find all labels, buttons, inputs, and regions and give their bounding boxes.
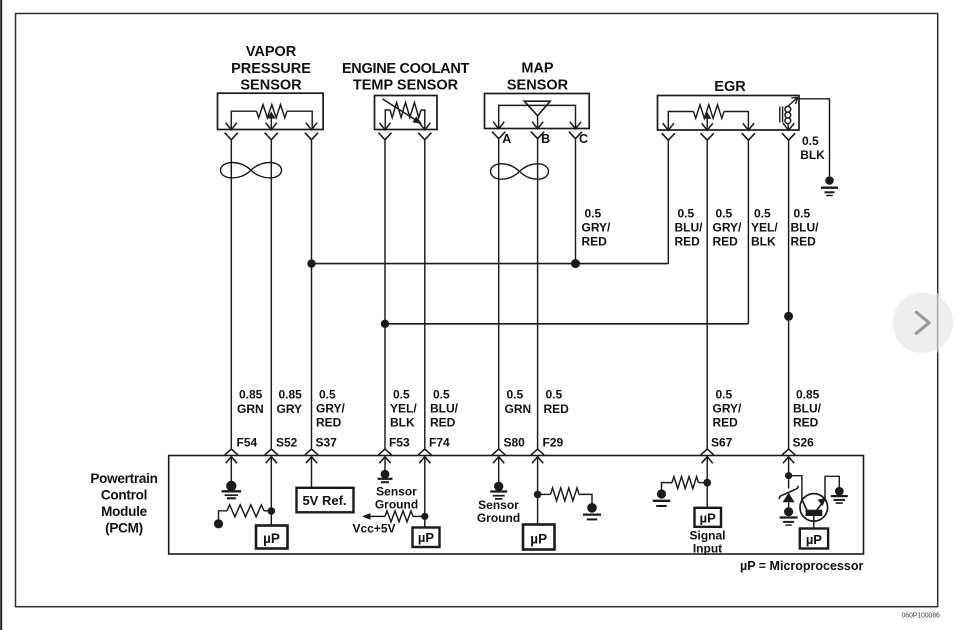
svg-text:0.5: 0.5 (546, 388, 563, 402)
label 0.5 GRY/RED (S37) (316, 388, 346, 430)
svg-text:RED: RED (793, 416, 819, 430)
svg-text:0.85: 0.85 (239, 388, 263, 402)
EGR pin 2 connector (701, 123, 714, 140)
svg-text:C: C (579, 132, 588, 146)
F53 sensor ground symbol (378, 470, 393, 482)
driver transistor Q1 (800, 494, 828, 522)
S37 internal wire (311, 457, 313, 488)
svg-text:060P100086: 060P100086 (902, 613, 940, 620)
svg-text:Sensor: Sensor (478, 498, 519, 512)
EGR pin 1 connector (662, 123, 675, 140)
svg-text:µP: µP (263, 531, 280, 546)
svg-text:0.5: 0.5 (802, 134, 819, 148)
S26 wire to transistor base (789, 476, 802, 500)
S67 internal wire (706, 457, 708, 508)
wire MAP C (0.5 GRY/RED) (575, 139, 577, 263)
svg-text:GRY/: GRY/ (713, 402, 743, 416)
label 0.5 BLU/RED (F74) (430, 388, 459, 430)
svg-text:µP = Microprocessor: µP = Microprocessor (740, 559, 863, 573)
EGR pin 4 connector (782, 123, 795, 140)
junction on F53 wire (381, 320, 389, 328)
svg-text:Ground: Ground (375, 498, 418, 512)
F74 internal wire (424, 457, 426, 528)
PCM pin connector S37 (305, 449, 318, 463)
svg-text:0.85: 0.85 (279, 388, 303, 402)
F54 internal ground (222, 481, 242, 499)
wire EGR solenoid to ground (797, 99, 829, 177)
label 0.5 BLU/RED (EGR1) (675, 207, 704, 249)
svg-text:0.5: 0.5 (585, 207, 602, 221)
svg-text:ENGINE COOLANT: ENGINE COOLANT (342, 61, 470, 77)
svg-text:F29: F29 (543, 436, 564, 450)
svg-text:BLK: BLK (390, 416, 415, 430)
S80 sensor ground symbol (490, 482, 507, 499)
svg-text:S37: S37 (316, 436, 338, 450)
svg-text:S52: S52 (276, 436, 298, 450)
Vcc resistor (385, 511, 425, 522)
svg-text:RED: RED (713, 416, 739, 430)
svg-text:YEL/: YEL/ (390, 402, 417, 416)
svg-text:0.5: 0.5 (716, 207, 733, 221)
PCM pin connector S80 (492, 449, 505, 463)
svg-text:SENSOR: SENSOR (240, 77, 302, 93)
svg-text:VAPOR: VAPOR (246, 44, 297, 60)
svg-text:GRY/: GRY/ (316, 402, 346, 416)
svg-text:MAP: MAP (521, 61, 554, 77)
MAP sensor box (485, 94, 590, 129)
bus wire sensor-ground S37/MAP C/EGR1 (312, 263, 669, 265)
label 0.5 GRY/RED (MAP C) (582, 207, 612, 249)
S52 internal wire (270, 457, 272, 526)
transistor base wire to uP (813, 515, 815, 529)
svg-text:RED: RED (713, 235, 739, 249)
svg-text:F74: F74 (429, 436, 450, 450)
S80 internal wire (498, 457, 500, 482)
wire F53 (0.5 YEL/BLK) (384, 139, 386, 450)
twisted pair MAP sensor (491, 164, 549, 179)
svg-text:BLU/: BLU/ (675, 221, 704, 235)
svg-text:0.5: 0.5 (754, 207, 771, 221)
svg-text:S26: S26 (793, 436, 815, 450)
vapor pressure sensor pin 3 connector (305, 123, 318, 140)
label 0.5 GRY/RED (EGR2) (713, 207, 743, 249)
wire S26 (0.85 BLU/RED) (788, 140, 790, 450)
label 0.5 GRY/RED (S67) (713, 388, 743, 430)
svg-text:0.5: 0.5 (716, 388, 733, 402)
wire S67 (0.5 GRY/RED) (706, 140, 708, 450)
svg-text:BLU/: BLU/ (430, 402, 459, 416)
svg-text:RED: RED (430, 416, 456, 430)
svg-text:Module: Module (101, 504, 147, 519)
pin letters A B C (502, 132, 588, 146)
EGR solenoid coil (780, 97, 798, 129)
wire EGR pin1 (0.5 BLU/RED) (667, 140, 669, 264)
pressure transducer in MAP sensor (499, 101, 576, 128)
svg-text:GRY: GRY (277, 402, 303, 416)
microprocessor box U3 (523, 525, 555, 550)
junction S52 (268, 507, 276, 515)
EGR box (658, 96, 800, 131)
label ENGINE COOLANT TEMP SENSOR (342, 61, 470, 94)
svg-text:F53: F53 (389, 436, 410, 450)
svg-text:0.5: 0.5 (678, 207, 695, 221)
S67 pull resistor (662, 477, 708, 490)
label 0.85 GRN (237, 388, 264, 416)
potentiometer in EGR (668, 105, 748, 130)
F29 internal wire (537, 457, 539, 525)
PCM pin connector S52 (265, 449, 278, 463)
svg-text:5V Ref.: 5V Ref. (302, 493, 346, 508)
svg-text:µP: µP (700, 510, 716, 525)
label 0.5 GRN (S80) (505, 388, 532, 416)
svg-text:F54: F54 (237, 436, 258, 450)
svg-text:GRY/: GRY/ (582, 221, 612, 235)
splice on S26 wire (784, 312, 793, 321)
bus wire 5V ref F53/EGR3 (385, 323, 748, 325)
label 0.85 GRY (277, 388, 303, 416)
svg-text:µP: µP (530, 532, 547, 547)
zener diode on S26 (779, 486, 798, 508)
wire S52 (0.85 GRY) (270, 139, 272, 450)
PCM pin connector F54 (225, 449, 238, 463)
svg-text:Input: Input (693, 542, 722, 556)
EGR pin 3 connector (742, 123, 755, 140)
svg-text:PRESSURE: PRESSURE (231, 61, 311, 77)
PCM box (169, 456, 864, 555)
label Sensor Ground (F53) (375, 485, 418, 512)
PCM pin connector S26 (782, 449, 795, 463)
microprocessor box U5 (800, 529, 828, 549)
svg-text:0.5: 0.5 (794, 207, 811, 221)
transistor collector wire to ground (825, 476, 839, 500)
vapor pressure sensor box (218, 93, 324, 129)
svg-text:GRN: GRN (505, 402, 532, 416)
junction F74 (421, 513, 428, 520)
MAP sensor pin A connector (492, 122, 505, 139)
wire S80 (0.5 GRN) (498, 139, 500, 450)
svg-text:S67: S67 (711, 436, 733, 450)
svg-text:GRN: GRN (237, 402, 264, 416)
svg-text:0.5: 0.5 (433, 388, 450, 402)
label 0.5 BLU/RED (EGR4) (791, 207, 820, 249)
ground for EGR solenoid (821, 176, 838, 195)
MAP sensor pin B connector (531, 122, 544, 139)
label 0.85 BLU/RED (S26) (793, 388, 822, 430)
label Powertrain Control Module (PCM) (90, 471, 157, 536)
S52 pull resistor (219, 505, 272, 520)
svg-text:YEL/: YEL/ (751, 221, 778, 235)
svg-text:µP: µP (418, 530, 434, 545)
label 0.5 YEL/BLK (F53) (390, 388, 417, 430)
svg-text:Sensor: Sensor (376, 485, 417, 499)
svg-text:Ground: Ground (477, 511, 520, 525)
svg-text:BLU/: BLU/ (791, 221, 820, 235)
junction on S37 wire (307, 259, 315, 267)
F29 pull resistor (538, 488, 592, 504)
label 0.5 YEL/BLK (EGR3) (751, 207, 778, 249)
thermistor in ECT sensor (383, 99, 425, 129)
PCM pin connector F29 (531, 449, 544, 463)
microprocessor box U4 (695, 508, 722, 527)
wire EGR pin3 (0.5 YEL/BLK) (747, 140, 749, 324)
svg-text:Vcc+5V: Vcc+5V (353, 522, 396, 536)
5V Ref box (297, 488, 354, 513)
vapor pressure sensor pin 2 connector (265, 123, 278, 140)
MAP sensor pin C connector (569, 122, 582, 139)
label Signal Input (689, 529, 725, 556)
svg-text:0.5: 0.5 (507, 388, 524, 402)
svg-text:A: A (502, 132, 511, 146)
F53 internal wire (384, 457, 386, 471)
svg-text:GRY/: GRY/ (713, 221, 743, 235)
vapor pressure sensor pin 1 connector (225, 123, 238, 140)
next-page chevron button (893, 293, 954, 354)
ECT sensor pin 2 connector (418, 123, 431, 140)
junction S67 (703, 479, 711, 487)
microprocessor box U1 (256, 526, 288, 549)
wire S37 (0.5 GRY/RED) (311, 139, 313, 450)
svg-text:RED: RED (316, 416, 342, 430)
svg-text:0.5: 0.5 (319, 388, 336, 402)
svg-text:Signal: Signal (689, 529, 725, 543)
label MAP SENSOR (507, 61, 569, 94)
Vcc+5V arrow (362, 513, 385, 520)
svg-text:(PCM): (PCM) (105, 521, 143, 536)
svg-text:BLK: BLK (800, 148, 825, 162)
wire F29 (0.5 RED) (537, 139, 539, 450)
engine coolant temp sensor box (375, 96, 438, 130)
svg-text:0.5: 0.5 (393, 388, 410, 402)
label Sensor Ground (S80) (477, 498, 520, 525)
PCM pin connector F74 (418, 449, 431, 463)
label 0.5 BLK (800, 134, 825, 162)
potentiometer in vapor pressure sensor (231, 105, 312, 130)
wire F74 (0.5 BLU/RED) (424, 139, 426, 450)
junction S26 (785, 472, 792, 479)
ground for F29 resistor (583, 503, 601, 519)
svg-text:Control: Control (101, 488, 147, 503)
junction F29 (534, 491, 542, 499)
ground for transistor (831, 487, 848, 503)
ECT sensor pin 1 connector (378, 123, 391, 140)
svg-text:S80: S80 (504, 436, 526, 450)
left page edge line (0, 0, 2, 630)
terminal dot on S52 resistor (214, 519, 223, 528)
svg-text:BLK: BLK (751, 235, 776, 249)
svg-text:SENSOR: SENSOR (507, 77, 569, 93)
wire F54 (0.85 GRN) (230, 139, 232, 450)
junction MAP C on bus (571, 259, 580, 268)
PCM pin connector S67 (701, 449, 714, 463)
svg-text:RED: RED (791, 235, 817, 249)
svg-text:0.85: 0.85 (796, 388, 820, 402)
F54 internal wire (230, 457, 232, 482)
ground for zener (780, 507, 798, 525)
svg-text:BLU/: BLU/ (793, 402, 822, 416)
ground for S67 resistor (653, 489, 671, 506)
svg-text:RED: RED (675, 235, 701, 249)
svg-text:TEMP SENSOR: TEMP SENSOR (353, 77, 459, 93)
svg-text:RED: RED (544, 402, 570, 416)
svg-text:EGR: EGR (714, 79, 746, 95)
twisted pair vapor pressure sensor (221, 163, 282, 178)
svg-text:Powertrain: Powertrain (90, 471, 157, 486)
S26 internal wire (788, 457, 790, 489)
svg-text:RED: RED (582, 235, 608, 249)
svg-text:B: B (541, 132, 550, 146)
label 0.5 RED (F29) (544, 388, 570, 416)
svg-text:µP: µP (806, 532, 822, 547)
PCM pin connector F53 (378, 449, 391, 463)
microprocessor box U2 (413, 528, 440, 548)
label VAPOR PRESSURE SENSOR (231, 44, 311, 94)
